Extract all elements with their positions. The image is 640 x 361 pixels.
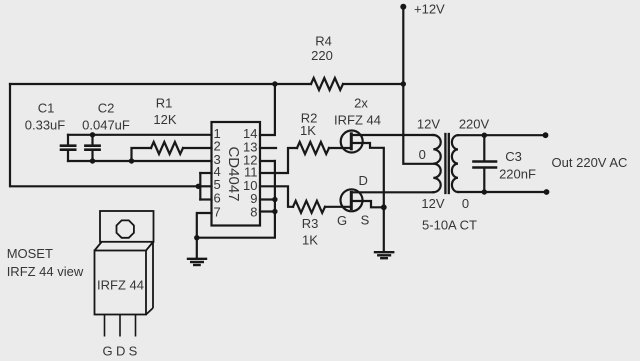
node pin 5 loop junction <box>196 184 201 189</box>
label IRFZ 44 package <box>97 278 144 293</box>
label C2 <box>98 101 115 116</box>
svg-text:R3: R3 <box>302 216 319 231</box>
label R3 <box>302 216 319 231</box>
svg-text:220: 220 <box>311 48 333 63</box>
node C2 bottom junction <box>90 158 95 163</box>
svg-text:IRFZ 44 view: IRFZ 44 view <box>7 264 84 279</box>
label pin numbers left <box>214 126 221 219</box>
label 2x <box>354 96 368 111</box>
transformer T1 primary winding <box>433 135 440 192</box>
wire secondary top to output <box>458 134 546 136</box>
svg-text:S: S <box>129 343 138 358</box>
wire top supply rail left of R4 <box>10 83 311 85</box>
svg-text:0.33uF: 0.33uF <box>25 118 66 133</box>
svg-text:C2: C2 <box>98 101 115 116</box>
wire Q1 source step to source bus <box>351 143 384 207</box>
wire pin 10 stub to R3 <box>260 186 293 207</box>
wire C-network top rail to pin 1 <box>68 134 212 136</box>
node C3 bottom junction <box>482 189 487 194</box>
svg-text:+12V: +12V <box>414 2 445 17</box>
node output terminal top <box>543 132 549 138</box>
wire R4 right lead to +12V line <box>343 83 403 85</box>
node ground junction left <box>194 235 199 240</box>
wire pins 4-5-6 bracket <box>200 173 211 200</box>
node pin14 rail junction <box>272 81 277 86</box>
svg-text:R1: R1 <box>156 96 173 111</box>
transformer T1 secondary winding <box>452 135 458 192</box>
capacitor C3 <box>474 135 497 192</box>
svg-text:MOSET: MOSET <box>7 246 53 261</box>
wire pin 14 stub up to supply rail <box>260 84 275 135</box>
label pin numbers right <box>243 126 257 219</box>
node C3 top junction <box>482 133 487 138</box>
label 0.047uF <box>82 118 130 133</box>
label R2 <box>301 111 318 126</box>
svg-text:C1: C1 <box>38 101 55 116</box>
label IRFZ 44 pair <box>334 112 381 127</box>
svg-text:G: G <box>102 343 112 358</box>
label 0 secondary bottom <box>462 196 469 211</box>
svg-text:220nF: 220nF <box>499 167 536 182</box>
svg-text:IRFZ 44: IRFZ 44 <box>97 278 144 293</box>
label 220nF <box>499 167 536 182</box>
svg-text:C3: C3 <box>505 149 522 164</box>
wire R2 right lead to Q1 gate <box>329 147 350 149</box>
svg-text:0: 0 <box>419 147 426 162</box>
wire pin 13 stub <box>260 147 276 149</box>
svg-text:0.047uF: 0.047uF <box>82 118 130 133</box>
svg-text:12V: 12V <box>417 117 440 132</box>
svg-text:1K: 1K <box>302 232 318 247</box>
node supply rail junction <box>401 81 406 86</box>
transistor package 3d edges <box>95 242 154 315</box>
label +12V <box>414 2 445 17</box>
resistor R3 <box>293 201 325 213</box>
node pin 8 junction <box>272 209 277 214</box>
label 5-10A CT <box>422 218 477 233</box>
transistor package TO-220 tab <box>100 211 154 242</box>
wire Q2 drain to transformer primary bottom <box>351 191 433 193</box>
wire right ground bus vertical <box>197 161 275 238</box>
IC U1 CD4047 body <box>212 122 261 226</box>
wire pin 8 stub <box>260 210 275 212</box>
svg-text:R4: R4 <box>315 34 332 49</box>
wire R1 left lead from bottom rail <box>132 148 152 161</box>
transistor package mounting hole <box>117 220 134 237</box>
label R1 <box>156 96 173 111</box>
label 12V primary top <box>417 117 440 132</box>
node R1 bottom rail junction <box>129 158 134 163</box>
resistor R2 <box>297 142 329 154</box>
wire +12V vertical and center-tap feed <box>403 7 433 164</box>
svg-text:5-10A CT: 5-10A CT <box>422 218 477 233</box>
label Out 220V AC <box>552 155 628 170</box>
label D <box>359 173 368 188</box>
label C3 <box>505 149 522 164</box>
svg-text:8: 8 <box>250 205 257 220</box>
svg-text:D: D <box>116 343 125 358</box>
node output terminal bottom <box>544 189 550 195</box>
label IRFZ 44 view <box>7 264 84 279</box>
wire Q1 drain to transformer primary top <box>351 134 433 136</box>
wire pin 9 stub <box>260 198 275 200</box>
label 1K lower <box>302 232 318 247</box>
label 220 <box>311 48 333 63</box>
label MOSET <box>7 246 53 261</box>
svg-text:6: 6 <box>214 190 221 205</box>
wire pin 11 stub to R2 <box>260 148 297 173</box>
wire source bus to ground <box>383 207 385 251</box>
label 220V secondary <box>459 117 490 132</box>
resistor R4 <box>311 78 343 90</box>
label 0 center tap <box>419 147 426 162</box>
svg-text:CD4047: CD4047 <box>225 146 242 201</box>
svg-text:Out 220V AC: Out 220V AC <box>552 155 628 170</box>
capacitor C1 <box>61 135 75 161</box>
node pin 9 junction <box>272 197 277 202</box>
wire pin 12 stub to ground bus <box>260 160 275 162</box>
node source bus junction <box>381 204 387 210</box>
svg-text:S: S <box>361 212 370 227</box>
wire pin 7 to ground <box>197 213 212 238</box>
wire secondary bottom to output <box>458 191 547 193</box>
wire C-network bottom rail to pin 3 <box>68 160 212 162</box>
capacitor C2 <box>85 135 99 161</box>
transistor package legs <box>105 315 136 337</box>
transistor Q1 upper IRFZ44 <box>341 131 363 153</box>
svg-text:G: G <box>337 213 347 228</box>
svg-text:2x: 2x <box>354 96 368 111</box>
label 12K <box>153 112 176 127</box>
svg-text:D: D <box>359 173 368 188</box>
resistor R1 <box>151 142 183 154</box>
svg-text:12K: 12K <box>153 112 176 127</box>
wire Q2 source step to bus junction <box>351 201 384 207</box>
svg-text:1K: 1K <box>300 123 316 138</box>
label 12V primary bottom <box>421 196 444 211</box>
svg-text:0: 0 <box>462 196 469 211</box>
label G D S <box>102 343 137 358</box>
transistor Q2 lower IRFZ44 <box>341 189 363 211</box>
svg-text:220V: 220V <box>459 117 490 132</box>
transformer T1 core <box>445 134 448 193</box>
svg-text:12V: 12V <box>421 196 444 211</box>
ground symbol left <box>188 238 206 265</box>
transistor package body <box>95 251 147 315</box>
label 0.33uF <box>25 118 66 133</box>
node C2 top junction <box>90 132 95 137</box>
wire left loop down to pins 4-5-6 <box>10 84 200 186</box>
node +12V terminal <box>400 4 406 10</box>
label S <box>361 212 370 227</box>
label R4 <box>315 34 332 49</box>
label G <box>337 213 347 228</box>
ground symbol right <box>375 252 393 258</box>
wire R1 right lead to pin 2 <box>183 147 212 149</box>
label C1 <box>38 101 55 116</box>
label CD4047 <box>225 146 242 201</box>
label 1K upper <box>300 123 316 138</box>
svg-text:7: 7 <box>214 205 221 220</box>
wire R3 right lead to Q2 gate <box>325 206 350 208</box>
svg-text:IRFZ 44: IRFZ 44 <box>334 112 381 127</box>
